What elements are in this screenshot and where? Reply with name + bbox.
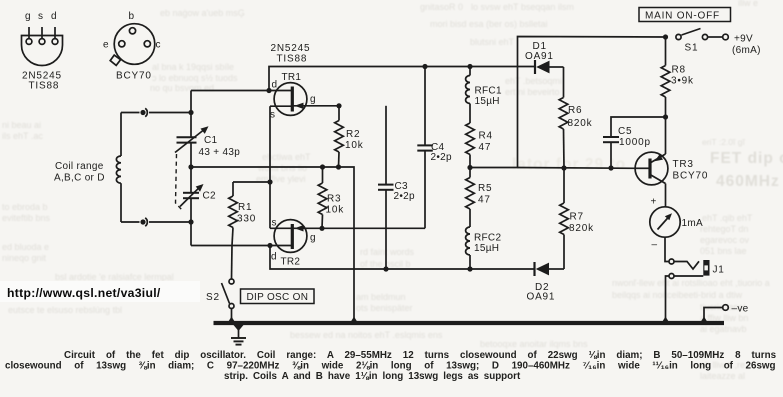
- label R3 10k: [326, 194, 345, 216]
- svg-text:1000p: 1000p: [619, 137, 651, 148]
- svg-text:+: +: [651, 197, 657, 208]
- svg-text:egarevoc ov: egarevoc ov: [700, 235, 750, 245]
- svg-text:strip. Coils A and B have 1⅛in: strip. Coils A and B have 1⅛in long 13sw…: [224, 371, 521, 382]
- svg-text:460MHz: 460MHz: [716, 173, 780, 190]
- diode D2 OA91: [535, 262, 565, 276]
- labels TR1 d s g: [270, 72, 316, 121]
- switch S1: [676, 29, 723, 40]
- box MAIN ON-OFF: [639, 8, 731, 22]
- svg-text:330: 330: [237, 214, 256, 225]
- coil socket top (plug): [140, 108, 147, 116]
- label C5 1000p: [618, 126, 651, 148]
- label BCY70 under pinout: [116, 71, 152, 82]
- transistor TR1 (FET 2N5245/TIS88): [269, 83, 339, 182]
- node C5/R8 top tap: [663, 114, 668, 119]
- capacitor C5 1000p: [603, 117, 666, 168]
- transistor TR2 (FET): [270, 182, 425, 252]
- pinout labels g s d: [25, 11, 57, 22]
- svg-text:+9V: +9V: [734, 34, 753, 45]
- svg-text:R2: R2: [346, 129, 360, 140]
- svg-text:C2: C2: [203, 191, 217, 202]
- ground busbar: [214, 317, 725, 324]
- svg-text:to ebroda b: to ebroda b: [2, 202, 48, 212]
- label meter + - 1mA: [651, 197, 703, 251]
- svg-text:TIS88: TIS88: [29, 81, 60, 92]
- choke RFC1 15uH: [466, 67, 470, 124]
- svg-text:RFC1: RFC1: [475, 86, 502, 97]
- box DIP OSC ON: [241, 289, 315, 304]
- label R6 820k: [568, 105, 593, 129]
- wire: coil bottom link with socket: [121, 221, 140, 223]
- svg-text:MAIN ON-OFF: MAIN ON-OFF: [645, 11, 720, 22]
- node R2 bottom: [336, 164, 341, 169]
- capacitor C1 (variable 43+43p): [175, 126, 209, 152]
- label Coil range A,B,C or D: [54, 161, 105, 184]
- svg-text:TIS88: TIS88: [277, 54, 308, 65]
- node TR1 drain: [266, 88, 271, 93]
- label S2: [206, 292, 220, 303]
- svg-text:820k: 820k: [568, 118, 593, 129]
- label 2N5245 TIS88 under pinout: [22, 71, 62, 92]
- svg-text:closewound of 13swg ⅜in diam;: closewound of 13swg ⅜in diam; C 97–220MH…: [5, 360, 776, 371]
- svg-text:R5: R5: [478, 183, 492, 194]
- svg-text:d: d: [272, 80, 278, 91]
- capacitor C2 (variable): [180, 184, 204, 207]
- resistor R2 10k: [335, 106, 344, 167]
- svg-text:al bna k 19qqsi sbíle: al bna k 19qqsi sbíle: [152, 62, 234, 72]
- svg-text:eutsce te elsuso rebslúng: eutsce te elsuso rebslúng tbl: [8, 305, 122, 315]
- svg-text:gnitasoR 0 lo svsw ehT bs: gnitasoR 0 lo svsw ehT bseqqan ilsm: [420, 2, 574, 12]
- node TR2 drain: [267, 243, 272, 248]
- resistor R1 330: [229, 182, 238, 246]
- svg-text:1mA: 1mA: [682, 218, 703, 229]
- label +9V (6mA): [732, 34, 761, 57]
- svg-text:ils ehT .ac: ils ehT .ac: [2, 131, 43, 141]
- svg-text:ed bluoda e: ed bluoda e: [2, 242, 49, 252]
- label R1 330: [237, 202, 256, 225]
- svg-text:iliw e: iliw e: [738, 0, 758, 8]
- pinout case 2N5245/TIS88 (bottom view): [22, 27, 63, 66]
- label R2 10k: [345, 129, 364, 151]
- svg-text:BCY70: BCY70: [116, 71, 152, 82]
- svg-text:C1: C1: [204, 135, 218, 146]
- label C4 2.2p: [431, 142, 453, 163]
- wire: tank column vertical x=191 (broken at C1, C2): [190, 91, 192, 138]
- svg-text:2N5245: 2N5245: [271, 43, 311, 54]
- pinout case BCY70 (bottom view): [110, 24, 155, 66]
- svg-text:eviteftib bns: eviteftib bns: [2, 213, 51, 223]
- labels TR2 s g d: [271, 218, 316, 268]
- label 2N5245 TIS88 above TR1: [271, 43, 311, 65]
- svg-text:2•2p: 2•2p: [431, 152, 453, 163]
- label R7 820k: [569, 212, 594, 235]
- svg-text:RFC2: RFC2: [474, 233, 501, 244]
- label RFC1 15uH: [475, 86, 502, 108]
- wire: top rail (TR1 drain rail): [269, 67, 535, 91]
- svg-text:ni beau ai: ni beau ai: [2, 120, 41, 130]
- jack J1: [665, 256, 710, 322]
- svg-text:(6mA): (6mA): [732, 45, 761, 56]
- svg-text:43 + 43p: 43 + 43p: [199, 147, 241, 158]
- svg-text:R8: R8: [672, 65, 686, 76]
- svg-text:10k: 10k: [326, 205, 345, 216]
- resistor R7 820k: [560, 168, 569, 269]
- coil L (plug-in coil): [116, 113, 121, 223]
- label -ve: [732, 304, 749, 315]
- svg-text:R4: R4: [479, 131, 493, 142]
- wire: TR2 drain drop to lower rail: [270, 246, 534, 270]
- transistor TR3 BCY70 (pnp): [635, 152, 668, 207]
- svg-text:rd faint words: rd faint words: [360, 247, 415, 257]
- svg-text:–: –: [652, 240, 658, 251]
- svg-text:g: g: [25, 11, 31, 22]
- svg-text:beilqqs ai noitceibeeti-brid a: beilqqs ai noitceibeeti-brid a dtiw: [612, 290, 743, 300]
- node C5 tap: [608, 165, 613, 170]
- pinout labels b e c: [103, 11, 161, 51]
- svg-text:betooqxe anoitar ilqms bns: betooqxe anoitar ilqms bns: [480, 339, 588, 349]
- svg-text:TR2: TR2: [281, 257, 301, 268]
- svg-text:R3: R3: [327, 194, 341, 205]
- resistor R6 820k: [559, 67, 568, 168]
- label C3 2.2p: [394, 181, 416, 202]
- svg-text:g: g: [310, 233, 316, 244]
- label D1 OA91: [525, 41, 554, 62]
- svg-text:c: c: [156, 40, 162, 51]
- svg-text:820k: 820k: [569, 223, 594, 234]
- svg-text:bsl ardotie 'e ralsiafce lermp: bsl ardotie 'e ralsiafce lermpal: [55, 272, 174, 282]
- node RFC2 lower rail: [467, 266, 472, 271]
- capacitor C4 2.2p: [417, 67, 433, 229]
- svg-text:FET dip oscil: FET dip oscil: [710, 150, 783, 167]
- wire: gang centre line y=167: [191, 167, 354, 322]
- svg-text:wolla bns lio: wolla bns lio: [257, 163, 307, 173]
- capacitor C3 2.2p: [378, 106, 394, 269]
- resistor R8 3.9k: [661, 37, 670, 154]
- svg-text:47: 47: [479, 142, 492, 153]
- label RFC2 15uH: [474, 233, 501, 255]
- svg-text:ehT .qib ehT: ehT .qib ehT: [702, 213, 753, 223]
- node S1/R8: [663, 34, 668, 39]
- svg-text:blutsni ehT: blutsni ehT: [470, 37, 515, 47]
- svg-text:3•9k: 3•9k: [671, 76, 694, 87]
- svg-text:TR1: TR1: [282, 72, 302, 83]
- svg-text:d: d: [51, 11, 57, 22]
- node R3 bottom: [319, 226, 324, 231]
- label C1 43+43p: [199, 135, 241, 158]
- svg-text:ai egatnavb: ai egatnavb: [700, 324, 747, 334]
- node C4 top rail: [422, 64, 427, 69]
- svg-text:15µH: 15µH: [475, 96, 500, 107]
- svg-text:Circuit of the fet dip oscilla: Circuit of the fet dip oscillator. Coil …: [64, 350, 777, 361]
- svg-text:laiteazze al: laiteazze al: [700, 371, 745, 381]
- svg-text:Coil range: Coil range: [55, 161, 104, 172]
- svg-text:051 bns lae: 051 bns lae: [700, 246, 747, 256]
- wire: coil top link with socket: [149, 112, 191, 114]
- node R3 top: [320, 164, 325, 169]
- svg-text:nineqo gnit: nineqo gnit: [2, 253, 47, 263]
- node tank top tap: [188, 110, 193, 115]
- svg-text:15µH: 15µH: [474, 243, 499, 254]
- label C2: [203, 191, 217, 202]
- node RFC1/R4-R5 feed: [467, 165, 472, 170]
- wire: TR1 drain to tank top column: [191, 90, 269, 92]
- svg-text:s: s: [38, 11, 44, 22]
- node sources/R1: [267, 179, 272, 184]
- dashed gang line C1-C2: [176, 154, 183, 210]
- coil socket bottom (plug): [140, 218, 147, 226]
- svg-text:no qu bsvom ed: no qu bsvom ed: [150, 83, 214, 93]
- wire: sources junction line to R1: [233, 181, 270, 183]
- wire: tank bottom to TR2 drain: [191, 245, 292, 247]
- label R8 3.9k: [671, 65, 694, 87]
- svg-text:bessew ed na noitos ehT .eslqm: bessew ed na noitos ehT .eslqmis ens: [290, 330, 443, 340]
- svg-text:2•2p: 2•2p: [394, 191, 416, 202]
- svg-text:10k: 10k: [345, 140, 364, 151]
- svg-text:d: d: [271, 252, 277, 263]
- svg-text:g: g: [310, 94, 316, 105]
- svg-text:e: e: [103, 40, 109, 51]
- svg-text:BCY70: BCY70: [673, 171, 709, 182]
- svg-text:http://www.qsl.net/va3iul/: http://www.qsl.net/va3iul/: [7, 286, 161, 300]
- svg-text:S2: S2: [206, 292, 220, 303]
- label R5 47: [478, 183, 492, 206]
- svg-text:R6: R6: [568, 105, 582, 116]
- resistor R5 47: [466, 168, 475, 228]
- svg-text:am beldmun: am beldmun: [356, 292, 406, 302]
- resistor R3 10k: [318, 167, 327, 228]
- svg-text:J1: J1: [713, 265, 725, 276]
- svg-text:b: b: [129, 11, 135, 22]
- node C3 lower rail: [383, 266, 388, 271]
- svg-text:DIP OSC ON: DIP OSC ON: [247, 292, 309, 303]
- svg-text:OA91: OA91: [525, 51, 554, 62]
- svg-text:ɔ lo ebnuoq s½ tuods: ɔ lo ebnuoq s½ tuods: [152, 73, 238, 83]
- svg-text:R1: R1: [238, 202, 252, 213]
- svg-text:ots benispäter: ots benispäter: [356, 303, 413, 313]
- svg-text:nwonľ-llew eht ai rotsllioao e: nwonľ-llew eht ai rotsllioao eht ,tiuori…: [612, 278, 770, 288]
- svg-text:–ve: –ve: [732, 304, 749, 315]
- meter 1mA: [650, 207, 680, 256]
- node C1/C2 centre: [188, 164, 193, 169]
- terminal -ve: [704, 305, 728, 322]
- svg-text:47: 47: [478, 195, 491, 206]
- label J1: [713, 265, 725, 276]
- svg-text:eb naġow a'ueb msĢ: eb naġow a'ueb msĢ: [160, 8, 245, 18]
- node tank bottom tap: [188, 219, 193, 224]
- svg-text:s: s: [270, 110, 275, 121]
- svg-text:s: s: [272, 218, 277, 229]
- terminal +9V: [723, 34, 729, 40]
- wire: R1 to S2: [231, 246, 234, 280]
- ground (earth) symbol: [231, 325, 246, 345]
- svg-text:R7: R7: [570, 212, 584, 223]
- label D2 OA91: [527, 282, 556, 303]
- svg-text:TR3: TR3: [673, 159, 694, 170]
- label TR3 BCY70: [673, 159, 709, 182]
- node R2 top: [336, 103, 341, 108]
- node RFC1 top rail: [467, 64, 472, 69]
- diode D1 OA91: [535, 60, 564, 74]
- svg-text:A,B,C or D: A,B,C or D: [54, 173, 105, 184]
- svg-text:mori bisd esa (ber os) bs: mori bisd esa (ber os) bslletai: [430, 19, 548, 29]
- wire: supply feed line y=167.5 and riser x=517.5: [470, 37, 666, 168]
- svg-text:lator for 29 to: lator for 29 to: [512, 156, 626, 173]
- switch S2: [222, 279, 235, 322]
- label R4 47: [479, 131, 493, 154]
- choke RFC2 15uH: [466, 227, 470, 269]
- resistor R4 47: [466, 123, 475, 168]
- node R6/R7: [561, 165, 566, 170]
- label S1: [685, 43, 699, 54]
- svg-text:OA91: OA91: [527, 292, 556, 303]
- svg-text:ert ni beveirto: ert ni beveirto: [505, 87, 560, 97]
- svg-text:S1: S1: [685, 43, 699, 54]
- svg-text:ehT .betsoqmi: ehT .betsoqmi: [505, 76, 562, 86]
- svg-text:rehtegoT dn: rehtegoT dn: [700, 224, 748, 234]
- svg-text:C5: C5: [618, 126, 632, 137]
- svg-text:eriT :2.0ĩ gĩ: eriT :2.0ĩ gĩ: [702, 137, 745, 147]
